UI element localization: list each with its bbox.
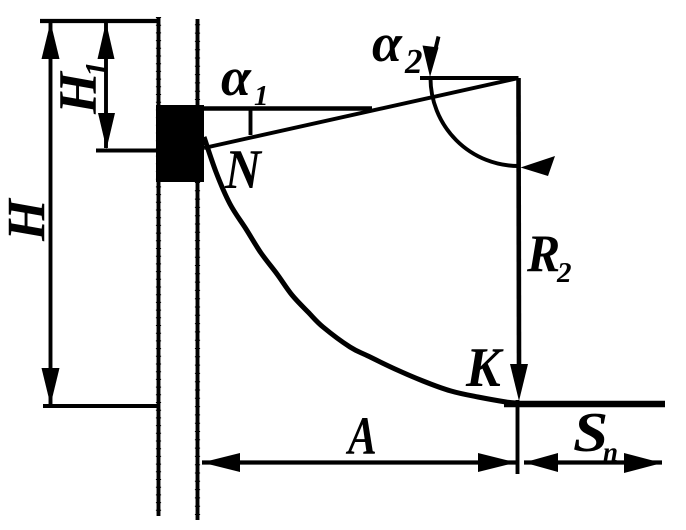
- svg-text:R: R: [526, 225, 560, 284]
- svg-text:1: 1: [254, 80, 269, 112]
- svg-text:K: K: [465, 336, 504, 398]
- svg-text:H: H: [0, 197, 57, 242]
- svg-text:2: 2: [556, 257, 572, 289]
- svg-text:2: 2: [404, 42, 423, 81]
- svg-text:N: N: [224, 139, 262, 200]
- svg-text:1: 1: [78, 61, 114, 77]
- svg-text:A: A: [345, 405, 376, 466]
- svg-text:α: α: [221, 47, 252, 107]
- svg-text:α: α: [372, 13, 403, 73]
- svg-text:n: n: [603, 437, 618, 467]
